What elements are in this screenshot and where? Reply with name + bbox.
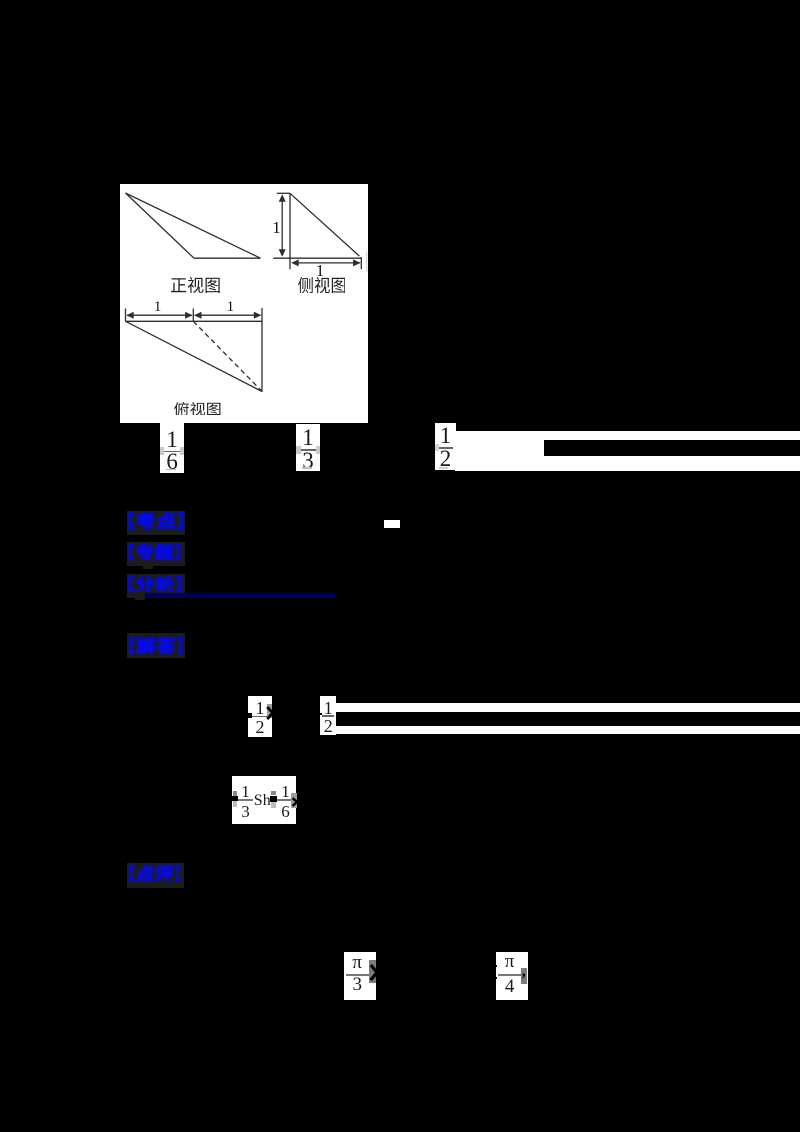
blue label 专题 backing <box>127 542 186 567</box>
blue label 分析 backing <box>127 574 186 599</box>
dimension label 1 <box>272 219 281 236</box>
label top view 俯视图 <box>174 402 221 416</box>
black greater-than mark <box>265 705 275 721</box>
blue label 点评 <box>129 865 180 882</box>
blue label 专题 <box>128 544 180 561</box>
dimension label 1 <box>154 300 162 315</box>
fraction 1/6 option <box>160 423 185 473</box>
white highlight band right of 1/2 <box>455 431 800 471</box>
side view vertical dimension arrow <box>281 196 283 255</box>
dimension label 1 <box>227 300 235 315</box>
dimension label 1 <box>316 262 325 279</box>
top view <box>125 309 127 322</box>
white text band 1 <box>336 703 800 711</box>
white text band 2 <box>336 726 800 734</box>
fraction 1/2 option <box>435 423 456 470</box>
Sh text <box>254 793 271 809</box>
blue label 解答 backing <box>127 633 186 658</box>
label front view 正视图 <box>171 277 220 293</box>
blue label 考点 backing <box>127 511 186 536</box>
fraction 1/2 in solution <box>248 696 272 737</box>
blue label 解答 <box>129 637 182 655</box>
fraction 1/2 second <box>320 696 336 736</box>
front view triangle <box>126 193 195 258</box>
top view dimension arrows <box>127 314 192 316</box>
figure: three-view drawing box <box>120 184 369 423</box>
white dash <box>384 520 400 528</box>
equation box 1/3 Sh 1/6 <box>232 776 297 824</box>
navy text line <box>145 593 335 599</box>
blue label 分析 <box>128 576 181 592</box>
fraction pi/3 <box>344 952 376 1000</box>
black gap in band <box>544 440 800 456</box>
side view horizontal dimension arrow <box>293 262 361 264</box>
fraction 1/3 option <box>296 424 320 471</box>
fraction pi/4 <box>496 952 528 1000</box>
blue label 考点 <box>128 512 183 530</box>
side view triangle <box>289 193 291 269</box>
blue label 点评 backing <box>127 863 184 888</box>
label side view 侧视图 <box>298 277 346 293</box>
